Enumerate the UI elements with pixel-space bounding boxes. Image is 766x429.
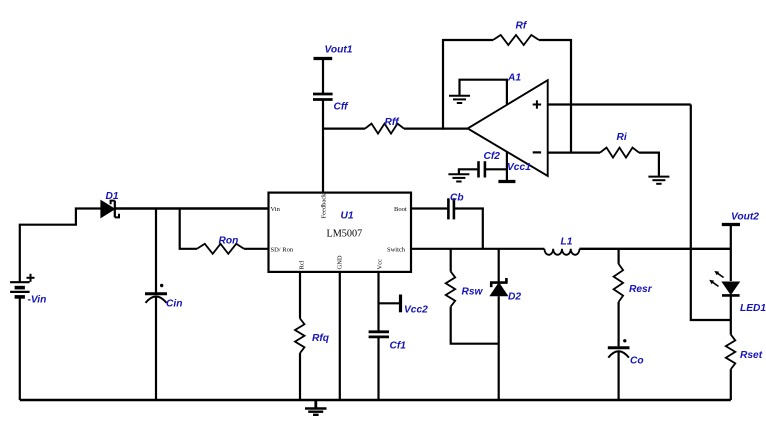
resistor Ron — [197, 244, 244, 254]
svg-text:U1: U1 — [341, 211, 354, 222]
capacitor Cb — [448, 198, 454, 219]
wire: Ron to U1 SD/Ron pin — [244, 248, 269, 250]
svg-text:Cf2: Cf2 — [484, 151, 501, 162]
supply Vcc2 bar — [399, 295, 402, 313]
svg-text:Rset: Rset — [740, 350, 763, 361]
wire: Ron tap — [180, 209, 197, 249]
wire: Ri to ground — [639, 153, 659, 176]
svg-text:Cf1: Cf1 — [390, 341, 407, 352]
wire: U1 GND pin to bottom rail — [339, 272, 341, 400]
svg-text:Feedback: Feedback — [321, 193, 328, 219]
wire: Rfq to bottom rail — [299, 353, 301, 400]
svg-text:Rcl: Rcl — [299, 260, 306, 269]
svg-text:Ron: Ron — [219, 236, 239, 247]
svg-text:Vcc: Vcc — [377, 259, 384, 270]
svg-text:Rsw: Rsw — [462, 287, 484, 298]
wire: Rf right leg down to inverting input — [570, 39, 572, 153]
supply Vcc1 bar — [498, 180, 515, 183]
svg-text:GND: GND — [337, 255, 344, 269]
wire: sense line down from non-inverting input — [691, 105, 731, 321]
svg-text:Rff: Rff — [385, 117, 401, 128]
wire: bottom rail — [20, 399, 731, 402]
wire: Vcc2 branch — [379, 302, 400, 304]
svg-text:Rfq: Rfq — [312, 333, 330, 344]
wire: D2 anode to bottom rail — [498, 296, 500, 400]
capacitor Cf1 — [369, 332, 389, 337]
svg-text:SD/ Ron: SD/ Ron — [271, 247, 294, 254]
wire: inverting input line — [548, 152, 600, 154]
svg-text:LM5007: LM5007 — [327, 229, 363, 240]
wire: Rf top left — [443, 39, 493, 41]
resistor Rset — [726, 335, 736, 370]
IC U1 LM5007 box — [269, 193, 412, 272]
wire: U1 Boot pin to Cb — [411, 207, 447, 209]
wire: Cf2 right lead to Vcc1 — [486, 168, 507, 170]
wire: Cf2 left lead to ground — [459, 169, 478, 173]
wire: U1 Rcl pin down — [299, 272, 301, 319]
wire: U1 Vcc pin down to Cf1 — [377, 272, 379, 332]
wire: D2 cathode to switch line — [498, 249, 500, 282]
wire: Rset to bottom rail — [730, 369, 732, 400]
ground (Ri) — [648, 177, 669, 184]
wire: non-inverting input to sense node — [548, 103, 691, 105]
svg-text:Switch: Switch — [387, 247, 406, 254]
wire: LED cathode to Rset — [730, 297, 732, 335]
resistor Rfq — [295, 319, 305, 354]
svg-text:D2: D2 — [508, 292, 521, 303]
ground (A1 pin) — [449, 96, 470, 103]
resistor Resr — [614, 264, 624, 302]
wire: Resr to Co — [617, 302, 619, 346]
svg-text:Cff: Cff — [334, 102, 350, 113]
svg-text:Vcc2: Vcc2 — [404, 305, 428, 316]
svg-text:Co: Co — [630, 356, 644, 367]
svg-text:Vout2: Vout2 — [731, 212, 759, 223]
wire: Cin tap down — [155, 209, 157, 294]
op-amp minus sign — [533, 151, 541, 153]
wire: Cb to switch node — [455, 209, 483, 249]
resistor Rff — [365, 124, 404, 134]
wire: battery positive up to D1 anode — [20, 209, 101, 284]
ground (Cf2) — [448, 174, 469, 181]
capacitor Cf2 — [479, 161, 485, 177]
wire: Rf left leg — [442, 39, 444, 130]
svg-text:D1: D1 — [106, 191, 119, 202]
wire: Resr top — [617, 249, 619, 264]
svg-text:A1: A1 — [507, 73, 521, 84]
diode D2 (Schottky, pointing up) — [490, 278, 508, 296]
wire: battery negative to bottom rail — [19, 297, 21, 400]
capacitor Cin (polarized) — [145, 284, 167, 303]
capacitor Co (polarized) — [608, 339, 630, 358]
LED LED1 — [709, 271, 739, 296]
resistor Rsw — [446, 272, 456, 307]
svg-text:Cin: Cin — [166, 299, 182, 310]
svg-text:Resr: Resr — [629, 284, 653, 295]
wire: Cin to bottom rail — [155, 298, 157, 401]
svg-text:Vin: Vin — [271, 206, 281, 213]
wire: U1 Switch pin to L1 — [411, 248, 544, 250]
terminal Vout1 — [314, 59, 333, 94]
svg-text:Boot: Boot — [394, 206, 407, 213]
resistor Rf — [493, 35, 539, 45]
inductor L1 — [544, 249, 579, 255]
svg-text:Ri: Ri — [617, 132, 627, 143]
svg-text:LED1: LED1 — [740, 303, 766, 314]
svg-text:Vout1: Vout1 — [325, 45, 353, 56]
svg-text:-Vin: -Vin — [28, 295, 47, 306]
wire: Cf1 to bottom rail — [377, 338, 379, 400]
ground (bottom rail) — [305, 401, 327, 415]
svg-text:L1: L1 — [561, 237, 573, 248]
wire: Vcc1 pin — [506, 152, 508, 181]
wire: Rsw bottom to D2 anode line — [451, 307, 499, 344]
svg-text:Rf: Rf — [516, 21, 528, 32]
wire: Rff to op-amp output node — [404, 128, 468, 130]
op-amp A1 — [468, 80, 548, 176]
svg-text:Vcc1: Vcc1 — [507, 162, 531, 173]
wire: D1 cathode to U1 Vin pin — [115, 207, 269, 209]
wire: Co to bottom rail — [617, 352, 619, 400]
capacitor Cff — [313, 94, 333, 100]
terminal Vout2 — [722, 225, 740, 282]
svg-text:Cb: Cb — [450, 193, 464, 204]
battery Vin — [10, 274, 34, 297]
wire: L1 to Vout2 node — [580, 248, 731, 250]
wire: feedback node to Rff — [323, 128, 365, 130]
diode D1 (Schottky) — [101, 201, 119, 218]
wire: Rsw top — [450, 249, 452, 272]
wire: Cff down to U1 Feedback pin — [322, 101, 324, 193]
resistor Ri — [600, 148, 639, 158]
op-amp plus sign — [533, 100, 541, 108]
wire: A1 top pin to ground — [460, 80, 507, 105]
wire: Rf top right — [539, 39, 571, 41]
